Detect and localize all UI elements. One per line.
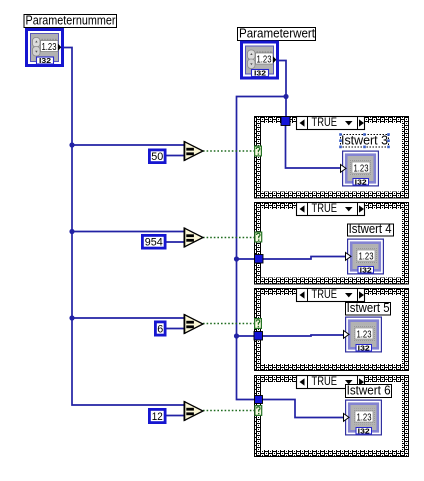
wire branch to Equal 1 x input [72, 144, 184, 146]
boolean wire Equal 2 to case 2 selector [203, 237, 254, 239]
wire constant 12 to Equal 4 [166, 415, 184, 417]
numeric constant 6 [155, 322, 165, 335]
Equal? comparison node 2 [184, 228, 203, 248]
case selector label 2 [297, 203, 365, 216]
wire Parameterwert to case tunnels rail [278, 61, 286, 122]
wire to case 2 tunnel [237, 258, 259, 260]
wire branch to Equal 2 x input [72, 231, 184, 233]
svg-text:Parameternummer: Parameternummer [26, 14, 116, 28]
svg-text:I32: I32 [358, 343, 370, 352]
Equal? comparison node 4 [184, 401, 203, 421]
svg-text:TRUE: TRUE [312, 203, 338, 215]
case selector terminal case 1 [255, 146, 262, 156]
boolean wire Equal 4 to case 4 selector [203, 410, 254, 412]
svg-text:1.23: 1.23 [354, 163, 369, 175]
wire junction junction J1 [69, 142, 74, 147]
boolean wire Equal 1 to case 1 selector [203, 150, 254, 152]
wire branch to Equal 3 x input [72, 317, 184, 319]
label Parameterwert [238, 27, 316, 41]
tunnel case 2 input tunnel [255, 255, 264, 264]
indicator terminal Istwert 3 [341, 151, 379, 186]
numeric constant 50 [149, 150, 165, 163]
svg-text:Istwert 4: Istwert 4 [349, 222, 392, 236]
case structure 4 border [254, 375, 409, 457]
numeric constant 954 [142, 235, 165, 248]
svg-text:Parameterwert: Parameterwert [239, 27, 315, 41]
svg-text:I32: I32 [355, 177, 367, 186]
case selector label 3 [297, 289, 365, 302]
label Istwert 4 [348, 222, 394, 236]
numeric constant 12 [149, 409, 165, 422]
svg-text:TRUE: TRUE [312, 376, 338, 388]
case structure 2 border [254, 202, 409, 285]
svg-text:12: 12 [152, 411, 163, 423]
wire junction junction J5 [234, 256, 239, 261]
wire constant 50 to Equal 1 [166, 155, 184, 157]
case selector terminal case 4 [255, 406, 262, 416]
indicator terminal Istwert 6 [344, 400, 382, 435]
wire case 1 tunnel to Istwert 3 [286, 123, 343, 168]
case selector terminal case 3 [255, 319, 262, 329]
wire junction junction J6 [234, 333, 239, 338]
svg-text:6: 6 [157, 323, 163, 335]
control terminal Parameterwert [242, 42, 278, 78]
svg-text:1.23: 1.23 [357, 329, 372, 341]
svg-text:TRUE: TRUE [312, 289, 338, 301]
wire junction junction J3 [69, 315, 74, 320]
svg-text:Istwert 5: Istwert 5 [347, 301, 390, 315]
svg-text:I32: I32 [360, 265, 372, 274]
Equal? comparison node 3 [184, 314, 203, 334]
svg-text:I32: I32 [358, 426, 370, 435]
svg-text:50: 50 [151, 151, 163, 163]
tunnel case 1 input tunnel [281, 117, 290, 126]
boolean wire Equal 3 to case 3 selector [203, 323, 254, 325]
wire case 2 tunnel to Istwert 4 [260, 257, 348, 260]
control terminal Parameternummer [27, 30, 63, 66]
wire constant 6 to Equal 3 [166, 328, 184, 330]
svg-text:954: 954 [145, 236, 163, 248]
svg-text:Istwert 6: Istwert 6 [347, 384, 391, 398]
wire junction junction J2 [69, 229, 74, 234]
svg-text:TRUE: TRUE [312, 117, 338, 129]
Equal? comparison node 1 [184, 141, 203, 161]
label Istwert 3 (selected, marching-ants) [339, 133, 390, 148]
wire to case 3 tunnel [237, 335, 259, 337]
svg-text:I32: I32 [39, 56, 51, 65]
case selector label 4 [297, 376, 365, 389]
tunnel case 4 input tunnel [255, 396, 263, 404]
label Istwert 6 [346, 384, 392, 398]
case selector label 1 [297, 117, 365, 130]
tunnel case 3 input tunnel [254, 332, 263, 341]
case structure 1 border [254, 116, 409, 199]
wire junction junction J4 [283, 94, 288, 99]
indicator terminal Istwert 4 [346, 239, 384, 274]
svg-text:1.23: 1.23 [42, 41, 57, 53]
label Parameternummer [24, 14, 117, 28]
indicator terminal Istwert 5 [344, 317, 382, 352]
svg-text:I32: I32 [254, 69, 266, 78]
svg-text:1.23: 1.23 [359, 251, 374, 263]
wire case 4 tunnel to Istwert 6 [260, 400, 346, 418]
svg-text:1.23: 1.23 [257, 54, 272, 66]
wire rail branch left [237, 97, 287, 400]
wire Parameternummer to comparators rail [63, 48, 184, 406]
wire case 3 tunnel to Istwert 5 [260, 335, 346, 336]
svg-text:1.23: 1.23 [357, 412, 372, 424]
wire constant 954 to Equal 2 [166, 241, 184, 243]
label Istwert 5 [346, 301, 391, 315]
case selector terminal case 2 [255, 232, 262, 242]
case structure 3 border [254, 288, 409, 371]
